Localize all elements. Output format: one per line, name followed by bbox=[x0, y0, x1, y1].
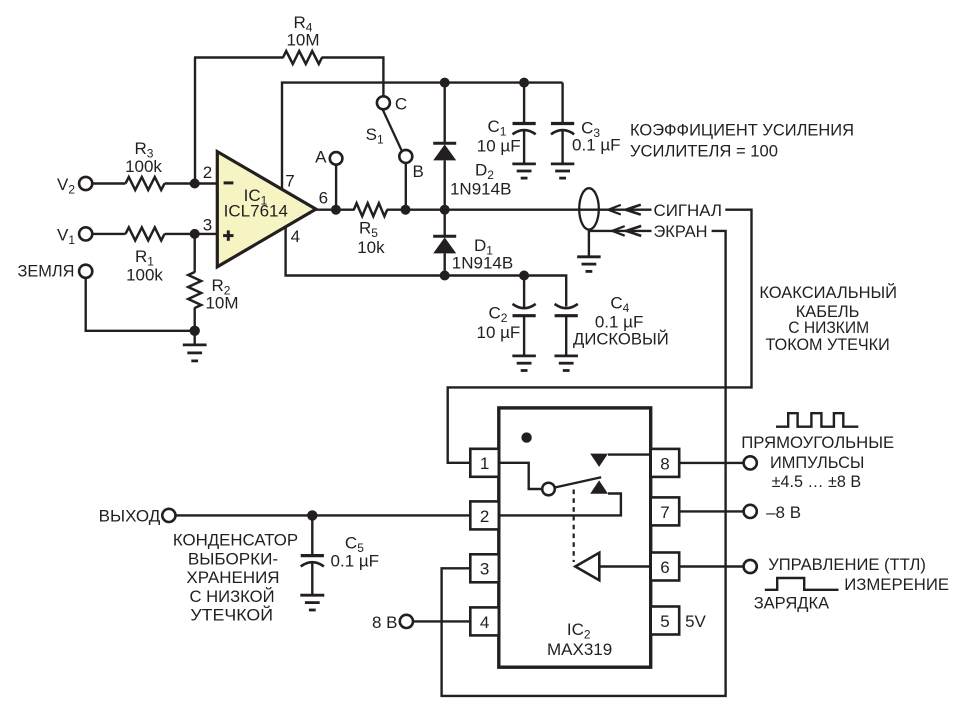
svg-text:B: B bbox=[413, 162, 424, 181]
ground under C1 bbox=[512, 162, 536, 165]
svg-text:ХРАНЕНИЯ: ХРАНЕНИЯ bbox=[186, 568, 279, 587]
capacitor C1 bbox=[523, 83, 525, 124]
wire pin6 out bbox=[679, 565, 744, 567]
ground under C5 bbox=[300, 594, 324, 597]
pulse icon bbox=[765, 578, 839, 590]
svg-text:С НИЗКОЙ: С НИЗКОЙ bbox=[189, 587, 274, 606]
wire pin7 out bbox=[679, 510, 744, 512]
IC2 internal pin1 wire bbox=[499, 463, 542, 489]
terminal -8V bbox=[744, 505, 757, 518]
wire V1 to R1 bbox=[92, 233, 126, 235]
terminal ВЫХОД bbox=[162, 509, 175, 522]
node A terminal bbox=[330, 152, 343, 165]
svg-text:A: A bbox=[315, 147, 327, 166]
IC2 switch blade bbox=[555, 477, 601, 487]
IC2 pin1 marker dot bbox=[521, 432, 531, 442]
svg-text:ЗАРЯДКА: ЗАРЯДКА bbox=[754, 594, 830, 613]
svg-text:7: 7 bbox=[660, 503, 669, 522]
svg-text:7: 7 bbox=[285, 171, 294, 190]
op-amp plus sign bbox=[223, 234, 233, 237]
svg-text:100k: 100k bbox=[125, 157, 162, 176]
svg-text:КОЭФФИЦИЕНТ УСИЛЕНИЯ: КОЭФФИЦИЕНТ УСИЛЕНИЯ bbox=[630, 121, 854, 140]
svg-text:C2: C2 bbox=[489, 303, 508, 325]
IC2 control triangle bbox=[575, 553, 599, 581]
svg-text:ВЫБОРКИ-: ВЫБОРКИ- bbox=[188, 550, 278, 569]
wire R4 row left bbox=[194, 56, 284, 58]
capacitor C5 bbox=[311, 515, 313, 555]
node junction pin3/R2 bbox=[190, 229, 200, 239]
resistor R2 bbox=[193, 234, 195, 273]
svg-text:–8 В: –8 В bbox=[766, 503, 801, 522]
svg-text:ЗЕМЛЯ: ЗЕМЛЯ bbox=[18, 262, 75, 281]
svg-text:УПРАВЛЕНИЕ (ТТЛ): УПРАВЛЕНИЕ (ТТЛ) bbox=[768, 555, 926, 574]
wire pin4 loop bbox=[286, 228, 567, 307]
squarewave icon bbox=[776, 413, 858, 427]
node junction output/diodes bbox=[440, 205, 450, 215]
terminal control bbox=[744, 560, 757, 573]
svg-text:КОНДЕНСАТОР: КОНДЕНСАТОР bbox=[173, 531, 298, 550]
terminal V2 bbox=[79, 177, 92, 190]
wire feedback left vertical bbox=[194, 58, 196, 184]
node junction output/A bbox=[331, 205, 341, 215]
svg-text:C1: C1 bbox=[488, 117, 507, 139]
switch S1 terminal C bbox=[377, 96, 390, 109]
resistor R4 bbox=[283, 51, 322, 64]
ground under coax bbox=[577, 255, 601, 258]
shield arrow chevron bbox=[612, 226, 625, 236]
svg-text:1N914B: 1N914B bbox=[452, 253, 513, 272]
svg-text:MAX319: MAX319 bbox=[547, 640, 612, 659]
svg-text:КОАКСИАЛЬНЫЙ: КОАКСИАЛЬНЫЙ bbox=[759, 283, 897, 302]
shield wire tail bbox=[589, 230, 652, 232]
wire R1 to op-amp pin3 bbox=[165, 233, 219, 235]
wire shield to IC2 pin3 bbox=[442, 231, 726, 696]
svg-text:СИГНАЛ: СИГНАЛ bbox=[654, 201, 723, 220]
node junction R5/B bbox=[401, 205, 411, 215]
wire ВЫХОД to pin2 bbox=[175, 514, 470, 516]
pin 6 box bbox=[651, 553, 680, 581]
wire output row left bbox=[316, 208, 355, 210]
svg-text:УТЕЧКОЙ: УТЕЧКОЙ bbox=[190, 606, 273, 625]
svg-text:10k: 10k bbox=[357, 238, 385, 257]
switch S1 terminal B bbox=[399, 150, 412, 163]
diode D2 bbox=[444, 83, 446, 144]
ground symbol under R2 bbox=[183, 343, 207, 346]
ground under C2 bbox=[512, 354, 536, 357]
svg-text:ЭКРАН: ЭКРАН bbox=[654, 222, 708, 241]
svg-text:10 µF: 10 µF bbox=[476, 323, 520, 342]
diode D1 bbox=[444, 210, 446, 237]
svg-text:УСИЛИТЕЛЯ = 100: УСИЛИТЕЛЯ = 100 bbox=[630, 142, 778, 161]
IC2 wire up-triangle to pin2 bbox=[499, 494, 621, 516]
wire signal to IC2 pin1 bbox=[448, 210, 752, 463]
coax ground lead bbox=[588, 230, 590, 257]
IC2 wire triangle to pin8 bbox=[608, 453, 651, 455]
svg-text:5: 5 bbox=[660, 612, 669, 631]
svg-text:1: 1 bbox=[480, 454, 489, 473]
terminal ЗЕМЛЯ bbox=[79, 265, 92, 278]
svg-text:0.1 µF: 0.1 µF bbox=[572, 136, 621, 155]
svg-text:C: C bbox=[395, 94, 407, 113]
node junction pin2/feedback bbox=[190, 179, 200, 189]
node junction ground bbox=[190, 326, 200, 336]
pin 7 box bbox=[651, 497, 680, 525]
svg-text:8: 8 bbox=[660, 454, 669, 473]
node junction top rail / C1 bbox=[519, 78, 529, 88]
IC2 wire control to pin6 bbox=[599, 565, 650, 567]
svg-text:ВЫХОД: ВЫХОД bbox=[99, 507, 161, 526]
svg-text:8 В: 8 В bbox=[372, 613, 398, 632]
terminal pulses bbox=[744, 456, 757, 469]
pin 1 box bbox=[470, 449, 499, 477]
ground under C3 bbox=[551, 162, 575, 165]
op-amp U1 triangle bbox=[217, 152, 316, 267]
wire R4 row right + drop to switch C bbox=[322, 58, 384, 97]
terminal V1 bbox=[79, 227, 92, 240]
IC IC2 body bbox=[499, 408, 651, 667]
signal arrow chevron bbox=[608, 205, 621, 215]
pin 8 box bbox=[651, 449, 680, 477]
node junction C5 bbox=[307, 510, 317, 520]
svg-text:3: 3 bbox=[203, 216, 212, 235]
svg-text:10M: 10M bbox=[205, 294, 238, 313]
capacitor C4 bbox=[555, 314, 578, 317]
pin 3 box bbox=[470, 554, 499, 582]
svg-text:ПРЯМОУГОЛЬНЫЕ: ПРЯМОУГОЛЬНЫЕ bbox=[741, 433, 894, 452]
resistor R3 bbox=[126, 177, 165, 190]
wire 8V to pin4 bbox=[413, 620, 471, 622]
IC2 contact down-triangle bbox=[590, 454, 608, 467]
pin 4 box bbox=[470, 607, 499, 635]
capacitor C2 bbox=[523, 276, 525, 308]
wire output row right bbox=[387, 208, 652, 210]
svg-text:100k: 100k bbox=[126, 266, 163, 285]
shield arrowhead bbox=[626, 226, 641, 236]
terminal 8V bbox=[400, 615, 413, 628]
ground under C4 bbox=[554, 354, 578, 357]
svg-text:10 µF: 10 µF bbox=[477, 137, 521, 156]
op-amp minus sign bbox=[224, 181, 234, 184]
node A wire bbox=[335, 165, 337, 210]
wire top rail (pin7) bbox=[282, 83, 563, 190]
svg-text:V1: V1 bbox=[57, 225, 75, 247]
wire ground stub bbox=[193, 331, 195, 345]
pin 2 box bbox=[470, 501, 499, 529]
svg-text:2: 2 bbox=[480, 507, 489, 526]
resistor R1 bbox=[126, 227, 165, 240]
wire R3 to op-amp pin2 bbox=[165, 182, 219, 184]
svg-text:3: 3 bbox=[480, 560, 489, 579]
svg-text:ДИСКОВЫЙ: ДИСКОВЫЙ bbox=[573, 329, 669, 348]
svg-text:6: 6 bbox=[319, 189, 328, 208]
signal arrowhead bbox=[626, 205, 641, 215]
coax connector ellipse bbox=[579, 188, 599, 229]
svg-text:4: 4 bbox=[291, 227, 300, 246]
switch S1 blade bbox=[383, 109, 403, 151]
svg-text:6: 6 bbox=[660, 558, 669, 577]
IC2 control dashed line bbox=[573, 490, 575, 563]
svg-text:ТОКОМ УТЕЧКИ: ТОКОМ УТЕЧКИ bbox=[766, 335, 890, 354]
wire ЗЕМЛЯ to ground node bbox=[86, 278, 195, 331]
svg-text:R5: R5 bbox=[359, 218, 378, 240]
svg-text:1N914B: 1N914B bbox=[450, 179, 511, 198]
resistor R5 bbox=[354, 203, 387, 216]
svg-text:2: 2 bbox=[203, 163, 212, 182]
svg-text:ИМПУЛЬСЫ: ИМПУЛЬСЫ bbox=[770, 453, 865, 472]
IC2 switch pole bbox=[542, 483, 555, 496]
node junction lower rail/C2 bbox=[519, 271, 529, 281]
wire V2 to R3 bbox=[92, 182, 126, 184]
svg-text:ИЗМЕРЕНИЕ: ИЗМЕРЕНИЕ bbox=[844, 575, 949, 594]
switch S1 pole B wire bbox=[405, 163, 407, 210]
node junction top rail / D2 bbox=[440, 78, 450, 88]
svg-text:±4.5 … ±8 В: ±4.5 … ±8 В bbox=[772, 472, 862, 491]
svg-text:10M: 10M bbox=[286, 31, 319, 50]
capacitor C3 bbox=[561, 83, 563, 124]
svg-text:V2: V2 bbox=[57, 175, 75, 197]
IC2 contact up-triangle bbox=[590, 480, 608, 493]
svg-text:4: 4 bbox=[480, 613, 489, 632]
svg-text:0.1 µF: 0.1 µF bbox=[331, 551, 380, 570]
svg-text:ICL7614: ICL7614 bbox=[224, 202, 288, 221]
svg-text:S1: S1 bbox=[366, 125, 384, 147]
wire pin8 out bbox=[679, 462, 744, 464]
pin 5 box bbox=[651, 607, 680, 635]
node junction lower rail/D1 bbox=[440, 271, 450, 281]
svg-text:5V: 5V bbox=[685, 612, 706, 631]
